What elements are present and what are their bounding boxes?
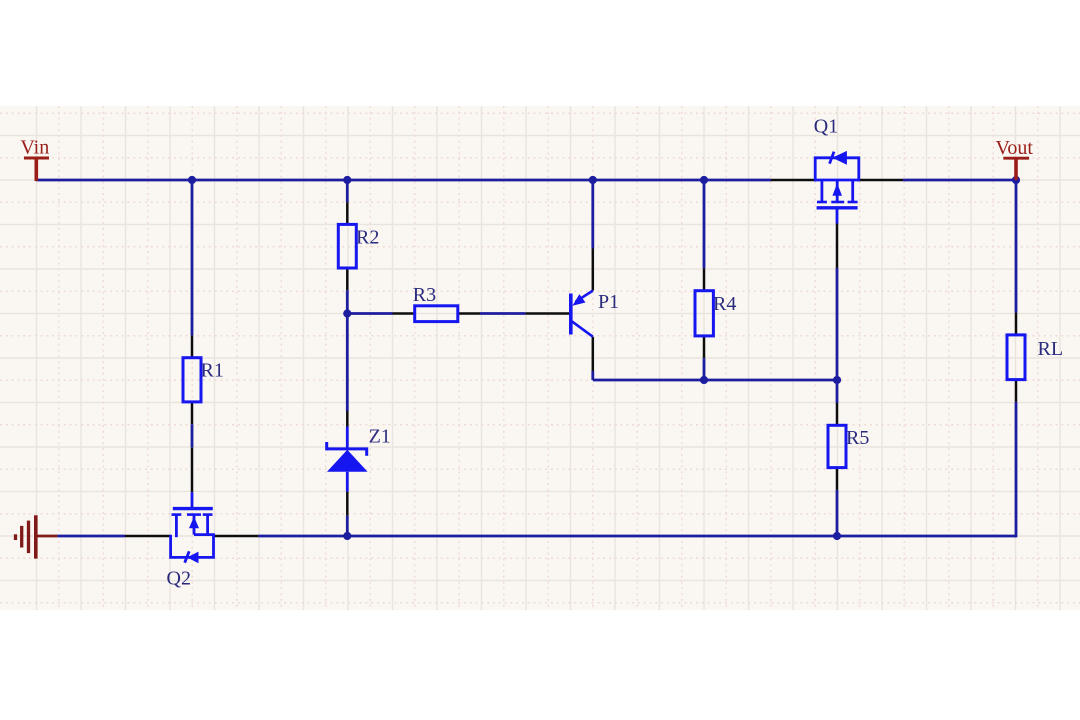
svg-text:Q2: Q2	[167, 568, 191, 590]
svg-text:P1: P1	[598, 291, 619, 313]
svg-text:R1: R1	[201, 359, 224, 381]
svg-text:Q1: Q1	[814, 116, 838, 138]
svg-text:Z1: Z1	[369, 426, 391, 448]
svg-text:R3: R3	[413, 284, 436, 306]
svg-text:RL: RL	[1038, 338, 1064, 360]
svg-text:R4: R4	[713, 293, 736, 315]
svg-text:Vin: Vin	[20, 137, 49, 159]
svg-text:Vout: Vout	[996, 137, 1034, 159]
svg-text:R2: R2	[356, 227, 379, 249]
svg-text:R5: R5	[846, 427, 869, 449]
